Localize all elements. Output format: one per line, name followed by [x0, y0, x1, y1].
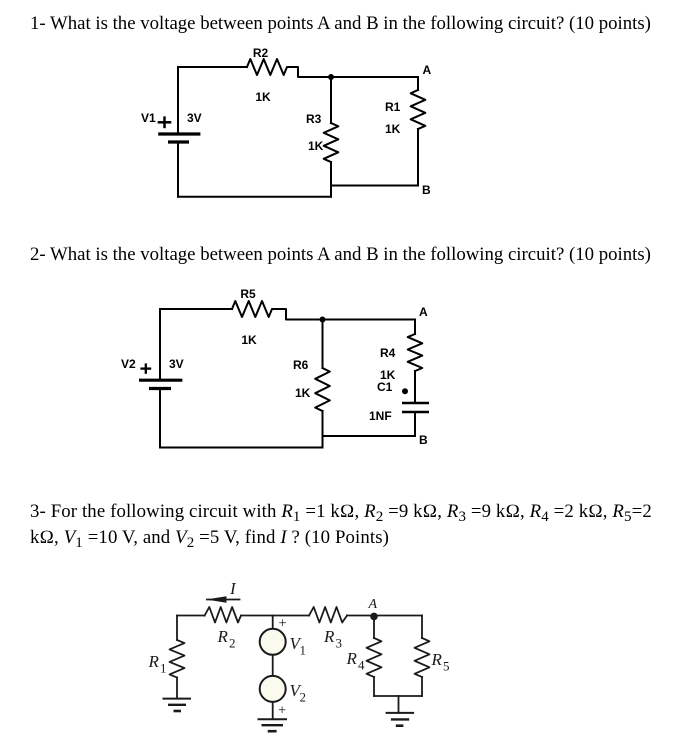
svg-text:2: 2 [300, 690, 307, 705]
svg-text:R5: R5 [240, 287, 256, 301]
ground V2 [258, 719, 288, 731]
svg-text:+: + [278, 703, 286, 719]
wire: capacitor to B [414, 412, 416, 436]
ground R1 [163, 699, 192, 711]
svg-text:V1: V1 [141, 111, 156, 125]
battery V1 plates [158, 134, 200, 142]
wire: circuit3 top left [177, 615, 205, 617]
battery V2 plates [139, 380, 182, 388]
resistor R1 (circuit3) [170, 640, 185, 678]
current arrow line [207, 599, 240, 601]
wire: bottom left circuit2 [160, 447, 323, 449]
svg-text:C1: C1 [377, 380, 393, 394]
voltage source V1 [260, 629, 286, 655]
resistor R6 [315, 368, 330, 411]
wire: R1 to B [417, 129, 419, 186]
svg-text:R: R [217, 627, 229, 646]
svg-text:R3: R3 [306, 112, 322, 126]
wire: node to A [331, 76, 418, 78]
svg-text:+: + [279, 616, 287, 632]
wire: R4 bottom [373, 677, 375, 696]
wire: R6 branch top [322, 320, 324, 369]
svg-text:3: 3 [336, 636, 343, 651]
resistor R3 [324, 123, 339, 162]
wire: R3 branch top [330, 77, 332, 123]
wire: R4 branch [373, 616, 375, 639]
svg-text:5: 5 [443, 659, 450, 674]
wire: bottom right circuit1 [331, 185, 418, 187]
svg-text:4: 4 [358, 658, 365, 673]
resistor R5 [232, 301, 323, 320]
question 2 text [30, 244, 651, 266]
wire: battery V2 bottom [159, 389, 161, 448]
svg-text:1K: 1K [255, 90, 271, 104]
wire: R5 branch [421, 616, 423, 639]
wire: right branch A down [417, 77, 419, 90]
svg-text:1K: 1K [241, 333, 257, 347]
resistor R1 [411, 90, 426, 129]
svg-text:2: 2 [229, 636, 236, 651]
wire: R1 to ground [176, 678, 178, 699]
resistor R3 (circuit3) [309, 607, 347, 623]
node dot circuit2 [320, 317, 326, 323]
svg-text:R: R [346, 649, 358, 668]
svg-text:1: 1 [300, 643, 307, 658]
wire: bottom R4-R5 [374, 695, 422, 697]
resistor R2 [247, 59, 331, 77]
svg-text:1K: 1K [295, 386, 311, 400]
wire: circuit1 top left [178, 66, 247, 68]
svg-text:B: B [422, 183, 431, 197]
voltage source V2 [260, 676, 286, 702]
wire: between V1 and V2 [272, 655, 274, 676]
wire: R3 to A to corner [347, 615, 422, 617]
node dot C1 [402, 388, 408, 394]
node A dot circuit3 [370, 613, 378, 621]
wire: R2 to middle [241, 615, 309, 617]
wire: V2 to ground [272, 702, 274, 719]
question 3 text [30, 499, 652, 525]
capacitor C1 plates [402, 403, 429, 412]
wire: battery V1 top [177, 67, 179, 134]
svg-text:I: I [229, 579, 237, 598]
resistor R2 (circuit3) [205, 607, 241, 623]
svg-text:3V: 3V [169, 357, 184, 371]
wire: R5 bottom [421, 677, 423, 696]
current arrow head [206, 596, 227, 603]
svg-text:3V: 3V [187, 111, 202, 125]
label + (V2) [140, 363, 151, 373]
svg-text:1NF: 1NF [369, 409, 392, 423]
svg-text:1K: 1K [385, 122, 401, 136]
svg-text:V2: V2 [121, 357, 136, 371]
wire: bottom left circuit1 [178, 196, 331, 198]
svg-text:R6: R6 [293, 358, 309, 372]
svg-text:A: A [368, 597, 378, 612]
resistor R4 [408, 334, 423, 371]
resistor R4 (circuit3) [367, 638, 382, 677]
resistor R5 (circuit3) [415, 638, 430, 677]
wire: circuit2 top left [160, 308, 232, 310]
node dot circuit1 [328, 74, 334, 80]
wire: R4 to capacitor [414, 371, 416, 403]
svg-text:R1: R1 [385, 100, 401, 114]
svg-text:1K: 1K [308, 139, 324, 153]
svg-text:1: 1 [160, 661, 167, 676]
svg-text:R: R [431, 650, 443, 669]
label + (V1) [158, 116, 172, 128]
wire: R3 bottom [330, 162, 332, 197]
svg-text:A: A [423, 63, 432, 77]
svg-text:R4: R4 [380, 346, 396, 360]
question 1 text [30, 13, 651, 35]
wire: left branch down [176, 616, 178, 641]
svg-text:R: R [148, 652, 160, 671]
svg-text:A: A [419, 305, 428, 319]
ground R4R5 [386, 713, 415, 726]
svg-text:B: B [419, 433, 428, 447]
svg-text:R2: R2 [253, 46, 269, 60]
wire: right branch circuit2 down [414, 320, 416, 335]
wire: middle branch top [272, 616, 274, 629]
wire: R6 bottom [322, 411, 324, 448]
wire: node to A circuit2 [323, 319, 416, 321]
wire: bottom right circuit2 [323, 435, 416, 437]
wire: battery V2 top [159, 309, 161, 380]
wire: battery V1 bottom [177, 142, 179, 197]
svg-text:R: R [323, 627, 335, 646]
wire: ground stem circuit3 right [398, 696, 400, 713]
